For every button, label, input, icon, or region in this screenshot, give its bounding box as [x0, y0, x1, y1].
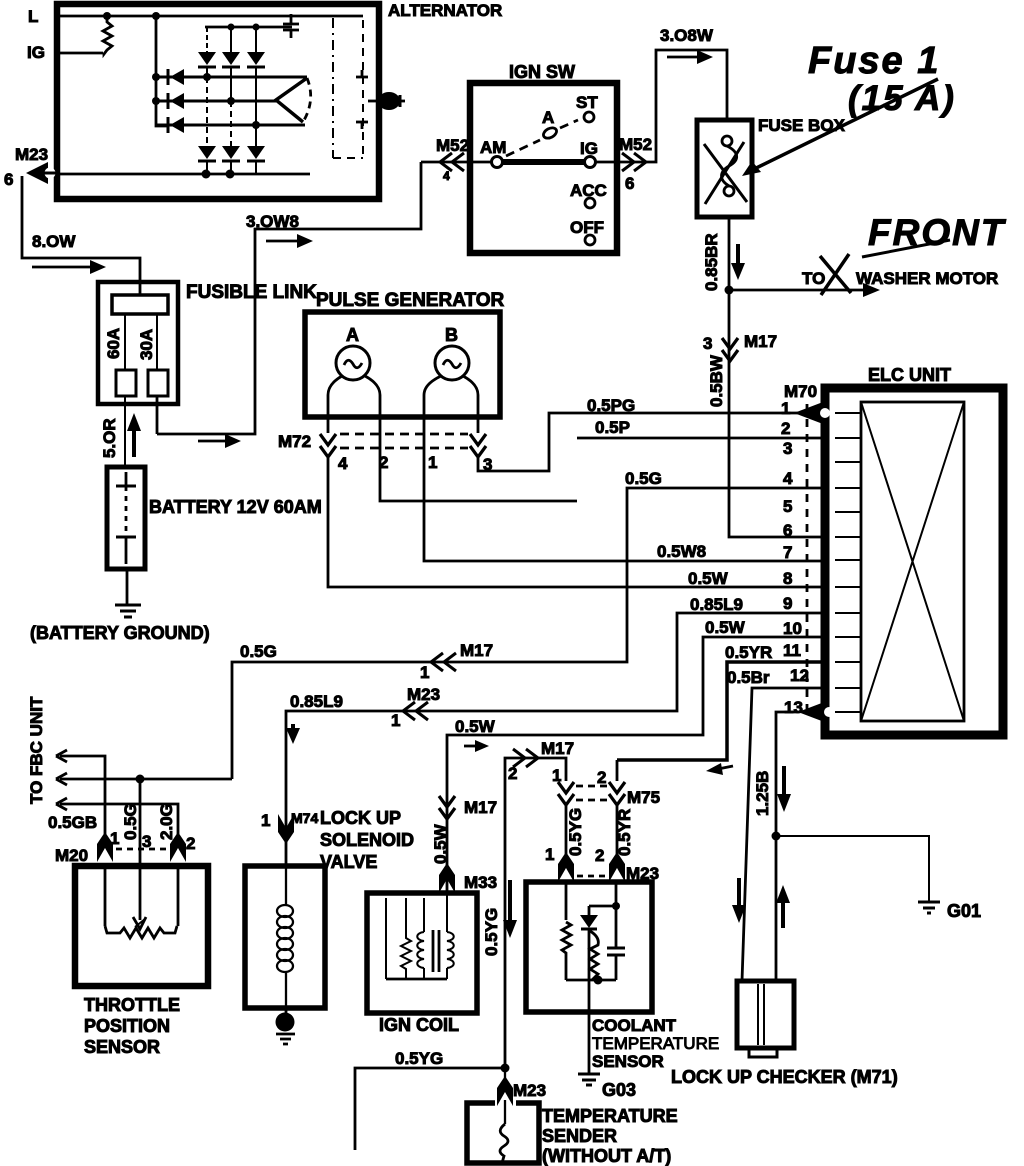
wire battery ground — [126, 569, 129, 604]
flow arrow 0.85BR down — [731, 244, 745, 280]
svg-text:0.85L9: 0.85L9 — [690, 595, 743, 614]
connector M20 pin2 terminal — [170, 832, 186, 862]
svg-text:0.85BR: 0.85BR — [702, 233, 721, 291]
wire B left lead — [424, 376, 825, 561]
svg-text:SOLENOID: SOLENOID — [320, 830, 414, 850]
connector M20 dashed — [116, 848, 168, 851]
svg-text:0.5W: 0.5W — [705, 618, 746, 637]
svg-text:M75: M75 — [627, 788, 660, 807]
wire top diode bus — [205, 26, 292, 29]
svg-text:PULSE GENERATOR: PULSE GENERATOR — [316, 290, 505, 311]
connector M17 pin3 chevrons — [722, 338, 738, 361]
wire 30A branch — [156, 314, 158, 370]
svg-text:M17: M17 — [464, 798, 497, 817]
svg-text:ST: ST — [576, 93, 598, 112]
svg-text:LOCK UP: LOCK UP — [320, 808, 401, 828]
svg-text:11: 11 — [783, 641, 801, 660]
resistor rotor field regulator — [103, 16, 112, 54]
scribble X over fuse — [704, 142, 747, 204]
svg-text:8: 8 — [783, 569, 792, 588]
wire 0.85BR below fuse — [729, 217, 825, 537]
svg-text:4: 4 — [338, 454, 348, 473]
svg-text:ELC UNIT: ELC UNIT — [868, 365, 951, 385]
throttle position sensor box — [75, 866, 208, 986]
svg-text:30A: 30A — [137, 329, 156, 360]
svg-text:OFF: OFF — [570, 218, 604, 237]
sender element squiggle — [500, 1124, 508, 1163]
coil secondary winding — [447, 893, 454, 979]
svg-text:M52: M52 — [619, 135, 652, 154]
svg-text:1.25B: 1.25B — [753, 771, 772, 816]
ground battery — [115, 605, 141, 617]
diode D3 left-pointing — [168, 117, 184, 133]
svg-text:0.5G: 0.5G — [240, 642, 277, 661]
svg-text:10: 10 — [783, 619, 802, 638]
wire M72 pin4 to ELC8 — [328, 458, 825, 587]
svg-text:WASHER MOTOR: WASHER MOTOR — [856, 269, 998, 288]
svg-text:0.5PG: 0.5PG — [587, 396, 635, 415]
svg-text:0.5YR: 0.5YR — [725, 643, 772, 662]
connector M72 dashed — [340, 434, 468, 448]
coil bottom bus — [386, 978, 447, 981]
battery cell symbol — [116, 472, 136, 564]
svg-text:COOLANT: COOLANT — [592, 1016, 677, 1035]
wire 0.5G pin4 — [232, 469, 825, 779]
fusible link box — [98, 282, 178, 404]
connector M70 pin1 arrow — [794, 402, 830, 424]
hand arrow to fuse — [742, 79, 938, 176]
wire pin2 inside — [615, 882, 618, 948]
svg-text:M72: M72 — [278, 432, 311, 451]
svg-text:5.OR: 5.OR — [100, 418, 119, 458]
wire 0.5P pin2 — [577, 418, 825, 438]
connector M17 chevrons right-pointing — [513, 749, 538, 767]
wire left diode bus — [156, 16, 168, 126]
svg-text:SENDER: SENDER — [542, 1126, 617, 1146]
wire M75 pin1 drop — [565, 806, 568, 858]
svg-text:0.5G: 0.5G — [121, 803, 140, 840]
wire pin2 inside — [177, 866, 180, 926]
svg-text:1: 1 — [781, 399, 790, 418]
wire to G03 — [588, 929, 591, 1073]
node bus junction — [594, 976, 603, 985]
svg-text:0.85L9: 0.85L9 — [290, 692, 343, 711]
flow arrow 8.OW — [32, 260, 106, 274]
svg-text:0.5W8: 0.5W8 — [657, 542, 706, 561]
throttle resistor — [105, 926, 177, 938]
node phase taps — [203, 73, 211, 81]
connector M17 chevrons on 0.5W down — [439, 796, 455, 819]
svg-text:M17: M17 — [541, 739, 574, 758]
svg-text:SENSOR: SENSOR — [592, 1052, 664, 1071]
diode D4 top down — [198, 27, 216, 77]
checker tab — [749, 1048, 777, 1057]
svg-text:(WITHOUT A/T): (WITHOUT A/T) — [542, 1146, 671, 1166]
diode D1 left-pointing — [168, 69, 184, 85]
brush upper — [356, 70, 368, 77]
svg-text:TEMPERATURE: TEMPERATURE — [542, 1106, 678, 1126]
node L bus junction — [152, 12, 160, 20]
svg-text:TO: TO — [802, 269, 825, 288]
ignition switch box — [470, 83, 617, 253]
svg-text:1: 1 — [428, 453, 437, 472]
flow arrow 0.5YG down — [503, 880, 517, 938]
svg-text:G01: G01 — [947, 901, 981, 921]
flow arrow 0.5W right — [464, 740, 489, 752]
wire 3.OW8 — [157, 162, 421, 434]
svg-text:M23: M23 — [407, 685, 440, 704]
ign coil box — [367, 893, 477, 1013]
svg-text:M20: M20 — [55, 846, 88, 865]
coil primary winding — [417, 898, 424, 979]
node pin2 junction — [612, 902, 620, 910]
fuse terminal top — [722, 136, 732, 146]
contact A — [542, 126, 559, 141]
connector M72 pin3 chevrons — [470, 434, 486, 457]
svg-text:M17: M17 — [744, 332, 777, 351]
connector M74 terminal — [278, 814, 294, 844]
wire L bus — [60, 15, 363, 18]
fuse terminal bottom — [724, 186, 734, 196]
svg-text:13: 13 — [784, 698, 803, 717]
lock up solenoid box — [245, 866, 325, 1008]
svg-text:3: 3 — [783, 439, 792, 458]
flow arrow 3.O8W — [667, 50, 713, 64]
connector M23 dashed — [577, 875, 606, 878]
svg-text:0.5GB: 0.5GB — [48, 813, 97, 832]
ground G03 — [578, 1074, 600, 1085]
fusible link top bar — [112, 295, 168, 314]
svg-text:0.5P: 0.5P — [595, 418, 630, 437]
connector M75 dashed — [576, 786, 607, 800]
node 0.5YG junction — [501, 1064, 510, 1073]
svg-text:4: 4 — [783, 469, 793, 488]
flow arrow 5.OR up — [127, 413, 141, 457]
svg-text:2: 2 — [781, 419, 790, 438]
fuse box — [697, 120, 752, 217]
svg-text:AM: AM — [480, 138, 506, 157]
svg-text:0.5YG: 0.5YG — [566, 808, 585, 856]
wire 0.85L9 pin9 — [286, 595, 825, 866]
svg-text:3: 3 — [703, 334, 712, 353]
svg-text:0.5BW: 0.5BW — [707, 354, 726, 407]
wire 8.OW — [22, 176, 140, 295]
ELC inner block with X — [861, 402, 964, 721]
svg-text:1: 1 — [420, 663, 429, 682]
svg-text:7: 7 — [783, 543, 792, 562]
svg-text:6: 6 — [4, 170, 13, 189]
svg-text:4: 4 — [443, 169, 450, 183]
wire 60A branch — [124, 314, 126, 370]
scribble X over TO — [820, 254, 851, 295]
svg-text:1: 1 — [261, 811, 270, 830]
capacitor condenser — [283, 14, 299, 38]
svg-text:G03: G03 — [602, 1080, 636, 1100]
wire FBC arrow 1 — [56, 750, 105, 834]
wire phase row 2 — [156, 100, 276, 103]
svg-text:2: 2 — [186, 834, 195, 853]
wire phase row 3 — [156, 124, 305, 127]
svg-text:THROTTLE: THROTTLE — [84, 995, 180, 1015]
connector M52 right chevrons — [622, 153, 646, 171]
wire bottom bus — [566, 979, 616, 982]
flow arrow 1.25B down — [777, 766, 791, 812]
svg-text:M17: M17 — [460, 641, 493, 660]
thermistor branch — [580, 906, 616, 929]
fusible element 60A — [116, 370, 136, 396]
wire FBC arrow 2 — [56, 773, 232, 785]
wire pin13 1.25B — [753, 712, 798, 981]
svg-text:TO FBC UNIT: TO FBC UNIT — [27, 696, 46, 804]
connector M23 pin2 terminal — [609, 852, 625, 882]
diode D9 bottom down — [247, 125, 265, 174]
contact OFF — [585, 235, 595, 245]
coolant sensor box — [526, 882, 652, 1012]
svg-text:(15 A): (15 A) — [848, 79, 956, 118]
connector M17 chevrons on 0.5G — [431, 653, 456, 671]
connector M52 left chevrons — [440, 153, 464, 171]
diode D8 bottom down — [222, 101, 240, 174]
diode D5 top down — [222, 27, 240, 101]
flow arrow 0.5YR left — [706, 763, 733, 775]
svg-text:VALVE: VALVE — [320, 852, 377, 872]
switch bar AM-IG — [503, 159, 584, 165]
wire 0.5YR pin11 — [617, 643, 825, 760]
svg-text:0.5YG: 0.5YG — [395, 1049, 443, 1068]
svg-text:3.O8W: 3.O8W — [660, 26, 714, 45]
svg-text:FUSIBLE LINK: FUSIBLE LINK — [186, 282, 317, 303]
svg-text:A: A — [346, 325, 359, 345]
svg-text:L: L — [28, 7, 38, 26]
connector M75 pin1 chevrons — [558, 782, 574, 805]
diode D6 top down — [247, 27, 265, 125]
connector M23 terminal sender — [497, 1076, 513, 1106]
thermistor squiggle — [590, 931, 598, 980]
svg-text:2: 2 — [595, 846, 604, 865]
svg-text:0.5YG: 0.5YG — [482, 908, 501, 956]
wire 0.5W pin10 — [447, 618, 825, 893]
connector M72 pin4 chevrons — [320, 434, 336, 457]
wire A right lead — [365, 376, 577, 501]
svg-text:9: 9 — [783, 594, 792, 613]
wire 60A output to battery — [124, 396, 126, 467]
svg-text:POSITION: POSITION — [84, 1016, 170, 1036]
svg-text:2: 2 — [379, 453, 388, 472]
node 1.25B branch — [772, 832, 781, 841]
wire FBC arrow 3 — [56, 798, 178, 834]
terminal B blob — [368, 92, 405, 110]
wire 0.5YG riser — [505, 758, 566, 1068]
connector M23 pin6 arrow — [26, 162, 60, 184]
wire M75 pin2 drop — [616, 760, 619, 858]
pickup coil A — [336, 346, 370, 380]
diode D7 bottom down — [198, 77, 216, 174]
rotor field winding dashed — [333, 20, 363, 158]
switch dashed arm — [506, 120, 578, 156]
wire IG lead — [60, 52, 103, 55]
resistor coolant — [562, 922, 571, 980]
diode D2 left-pointing — [168, 93, 184, 109]
alternator box — [57, 4, 379, 199]
svg-text:LOCK UP CHECKER (M71): LOCK UP CHECKER (M71) — [671, 1067, 898, 1087]
svg-text:12: 12 — [790, 666, 809, 685]
throttle wiper arrow — [133, 866, 146, 929]
wire B right lead — [463, 376, 478, 433]
wire A left lead — [328, 376, 342, 433]
svg-text:Fuse 1: Fuse 1 — [808, 40, 940, 82]
svg-text:2: 2 — [508, 764, 517, 783]
svg-text:0.5W: 0.5W — [431, 823, 450, 864]
svg-text:IGN COIL: IGN COIL — [379, 1015, 459, 1035]
checker divider — [758, 984, 764, 1045]
fuse element — [722, 146, 737, 186]
svg-text:M74: M74 — [291, 810, 318, 826]
svg-text:6: 6 — [625, 174, 634, 193]
svg-text:IG: IG — [580, 139, 598, 158]
svg-text:BATTERY 12V 60AM: BATTERY 12V 60AM — [149, 497, 322, 517]
stator winding — [276, 78, 311, 122]
svg-text:SENSOR: SENSOR — [84, 1037, 160, 1057]
contact IG — [585, 157, 596, 168]
connector M70 pin13 arrow — [798, 701, 834, 723]
wire to G01 — [776, 836, 929, 901]
svg-text:3.OW8: 3.OW8 — [246, 212, 299, 231]
fusible element 30A — [148, 370, 168, 396]
underline FRONT — [862, 240, 950, 257]
svg-text:IGN SW: IGN SW — [509, 62, 575, 82]
flow arrow 3.OW8 upper — [266, 234, 313, 248]
svg-text:B: B — [445, 325, 458, 345]
flow arrow checker right up — [776, 885, 790, 928]
wire to washer motor — [725, 286, 734, 295]
wire bottom bus — [60, 173, 310, 176]
pickup coil B — [435, 346, 469, 380]
wire phase row 1 — [156, 76, 307, 79]
wire AM lead — [421, 161, 492, 164]
transformer core — [433, 930, 439, 972]
svg-text:M33: M33 — [464, 873, 497, 892]
svg-text:M23: M23 — [15, 145, 48, 164]
svg-text:IG: IG — [27, 43, 45, 62]
svg-text:A: A — [542, 108, 554, 127]
solenoid ground dot — [276, 1008, 296, 1044]
lock up checker box — [737, 981, 794, 1048]
temperature sender box — [467, 1103, 539, 1163]
pulse generator box — [305, 312, 500, 417]
svg-text:2: 2 — [597, 768, 606, 787]
svg-text:0.5W: 0.5W — [688, 569, 729, 588]
svg-text:2.0G: 2.0G — [157, 803, 176, 840]
svg-text:0.5G: 0.5G — [625, 469, 662, 488]
svg-text:5: 5 — [783, 497, 792, 516]
connector M20 pin1 terminal — [97, 832, 113, 862]
capacitor coolant — [607, 948, 625, 980]
svg-text:ALTERNATOR: ALTERNATOR — [388, 1, 502, 20]
wire M72 pin3 to 0.5PG bend — [478, 413, 825, 471]
coil internal resistor — [401, 898, 411, 979]
battery box — [107, 467, 145, 569]
coil internal left wire — [385, 898, 387, 979]
svg-text:1: 1 — [391, 711, 400, 730]
ELC unit box — [825, 388, 1003, 735]
flow arrow checker left down — [732, 878, 746, 923]
wire 0.5YG horizontal — [355, 1068, 505, 1150]
svg-text:1: 1 — [545, 845, 554, 864]
connector M33 terminal — [439, 863, 455, 893]
flow arrow fusible output — [198, 434, 241, 448]
svg-text:6: 6 — [783, 521, 792, 540]
wire 0.5Br pin12 — [727, 668, 825, 981]
svg-text:M23: M23 — [513, 1081, 546, 1100]
flow arrow 0.85L9 down — [286, 724, 300, 744]
svg-text:ACC: ACC — [570, 181, 607, 200]
contact ST — [584, 112, 594, 122]
rotor dash-dot boundary — [332, 18, 334, 158]
svg-text:(BATTERY GROUND): (BATTERY GROUND) — [30, 623, 210, 643]
svg-text:0.5W: 0.5W — [455, 717, 496, 736]
node L-R junction — [103, 12, 111, 20]
svg-text:FRONT: FRONT — [868, 212, 1007, 253]
connector M70 dashed line — [806, 404, 809, 709]
ELC pin ticks — [835, 413, 861, 712]
wire pin1 inside — [104, 866, 107, 926]
ground G01 — [918, 902, 940, 913]
svg-text:60A: 60A — [104, 328, 123, 359]
wire pin1 inside — [565, 882, 568, 920]
connector M75 pin2 chevrons — [609, 782, 625, 805]
svg-text:TEMPERATURE: TEMPERATURE — [592, 1034, 719, 1053]
contact AM — [492, 157, 503, 168]
connector M23 chevrons on 0.85L9 — [403, 702, 428, 720]
wire IG output 3.O8W — [595, 50, 727, 162]
contact ACC — [585, 198, 595, 208]
solenoid coil — [277, 866, 293, 1008]
brush lower — [356, 122, 368, 129]
svg-text:0.5YR: 0.5YR — [615, 809, 634, 856]
svg-text:0.5Br: 0.5Br — [727, 668, 770, 687]
svg-text:8.OW: 8.OW — [32, 232, 76, 251]
wire wiper feed — [139, 779, 142, 866]
connector M23 pin1 terminal — [558, 852, 574, 882]
wire 30A output — [156, 396, 159, 434]
node FBC junction — [136, 775, 145, 784]
svg-text:M52: M52 — [436, 136, 469, 155]
